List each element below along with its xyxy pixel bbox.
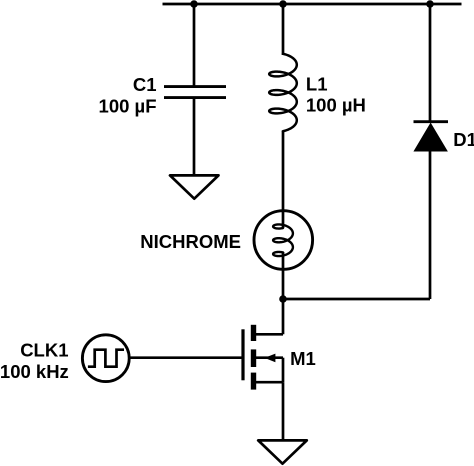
svg-text:M1: M1 [290,348,316,369]
svg-text:L1: L1 [306,73,328,94]
svg-text:CLK1: CLK1 [20,340,68,361]
svg-text:NICHROME: NICHROME [140,231,241,252]
svg-text:100 µF: 100 µF [99,96,157,117]
svg-text:100 µH: 100 µH [306,95,366,116]
svg-text:D1: D1 [453,129,474,150]
svg-text:C1: C1 [133,74,157,95]
svg-text:100 kHz: 100 kHz [0,361,69,382]
